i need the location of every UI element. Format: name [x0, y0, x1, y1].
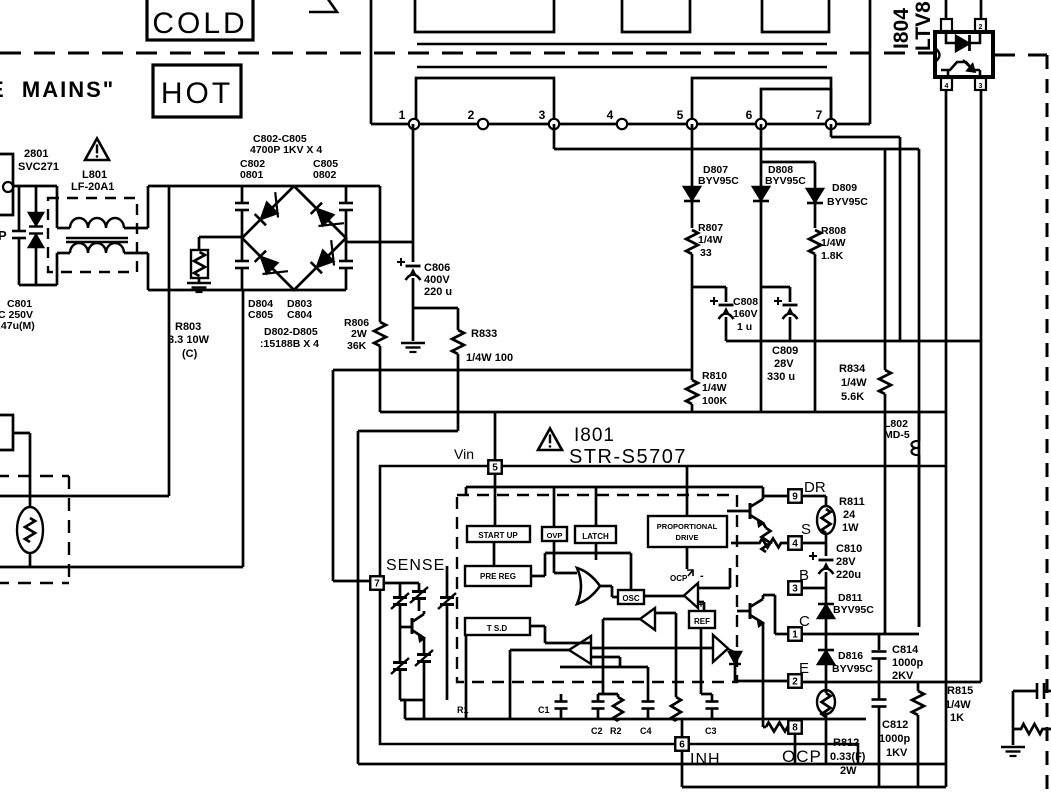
label C812: [879, 719, 910, 759]
wire inh up: [675, 613, 678, 676]
label R803: [168, 321, 210, 360]
label R833: [466, 328, 513, 364]
degauss connector box: [0, 415, 13, 450]
svg-text:D816: D816: [838, 650, 863, 662]
label C806: [424, 262, 452, 298]
ground C806: [401, 343, 425, 352]
svg-text:C804: C804: [287, 309, 312, 321]
bridge diamond: [242, 186, 346, 290]
mains isolation dashed line right edge: [1046, 55, 1049, 796]
svg-text:R815: R815: [947, 685, 973, 697]
bridge bottom edge: [242, 289, 346, 292]
diode D808: [753, 187, 769, 412]
diode D807: [684, 187, 700, 228]
svg-text:C812: C812: [882, 719, 908, 731]
wire PROP DRIVE top: [686, 466, 689, 516]
svg-text:400V: 400V: [424, 274, 450, 286]
label R815: [945, 685, 973, 724]
optocoupler pin bottom-right: [975, 78, 986, 90]
wire AC junction vertical: [56, 186, 59, 285]
svg-text:I804: I804: [890, 8, 913, 49]
svg-text:4: 4: [945, 83, 949, 90]
svg-text:330 u: 330 u: [767, 371, 795, 383]
label C814: [892, 644, 923, 682]
svg-text:LF-20A1: LF-20A1: [71, 181, 114, 193]
bridge top edge: [242, 185, 380, 188]
svg-text:R803: R803: [175, 321, 201, 333]
svg-text:R833: R833: [471, 328, 497, 340]
wire OVP stubs: [554, 487, 577, 573]
resistor internal S: [752, 539, 789, 548]
wire internal x466: [465, 634, 468, 719]
block PROPORTIONAL DRIVE: [648, 516, 727, 547]
svg-text:BYV95C: BYV95C: [765, 175, 806, 187]
warning triangle L801: [85, 138, 109, 160]
svg-text:100K: 100K: [702, 395, 728, 407]
wire comp4 in2: [591, 657, 620, 667]
wire pin5 down: [494, 475, 497, 526]
transformer pin 6: [746, 108, 767, 129]
capacitor C808: [710, 297, 734, 341]
label B: [799, 567, 809, 584]
capacitor C812: [872, 682, 887, 787]
wire comp4 out: [510, 650, 569, 719]
wire tsd to comp4: [530, 626, 591, 643]
svg-text:1.8K: 1.8K: [821, 250, 844, 262]
capacitor C810: [809, 543, 834, 598]
transformer secondary winding box pins 5-7: [692, 78, 831, 124]
svg-text:B: B: [799, 567, 809, 584]
resistor R803 fusible: [191, 250, 208, 282]
svg-text:SENSE: SENSE: [386, 557, 445, 574]
wire filter to bridge top: [148, 186, 242, 228]
svg-text:R810: R810: [702, 370, 727, 382]
wire sense rail from pin7: [333, 370, 371, 581]
IC pin 6 INH: [675, 737, 689, 751]
svg-text:C806: C806: [424, 262, 450, 274]
svg-text:2801: 2801: [24, 148, 48, 160]
transformer pin 4: [607, 108, 628, 129]
transformer pin 5: [677, 108, 698, 129]
label C802-C805 group: [250, 133, 322, 156]
svg-text:D802-D805: D802-D805: [264, 326, 318, 338]
capacitor C4: [640, 699, 655, 736]
resistor R corner: [1013, 724, 1051, 734]
svg-text:R808: R808: [821, 225, 846, 237]
ground R803: [187, 283, 211, 292]
capacitor C809: [774, 297, 798, 341]
svg-text:R1: R1: [457, 705, 469, 715]
svg-text:INH: INH: [690, 751, 721, 768]
label SENSE: [386, 557, 445, 574]
transistor Q1 internal top: [727, 499, 763, 526]
transformer pin 2: [468, 108, 489, 129]
wire D809 jog from pin6 line: [761, 162, 815, 189]
label AC MAINS text: [0, 77, 115, 102]
wire B line: [803, 587, 826, 590]
optocoupler pin top-right: [975, 0, 986, 31]
svg-text:3: 3: [979, 83, 983, 90]
svg-text:COLD: COLD: [152, 7, 247, 40]
svg-text:C1: C1: [538, 705, 550, 715]
label R834: [839, 363, 867, 403]
IC pin 9 DR: [788, 489, 802, 503]
line filter L801 lower winding: [57, 243, 148, 253]
label E: [799, 660, 809, 677]
wire pin6 top: [681, 719, 684, 737]
label P: [0, 228, 7, 243]
AC input terminal box: [0, 154, 13, 215]
svg-text:1: 1: [399, 108, 406, 122]
svg-text:28V: 28V: [774, 358, 794, 370]
label R811: [839, 496, 865, 534]
wire R807 to R810: [691, 287, 694, 370]
wire comp1 inputs: [698, 568, 730, 611]
wire main bus y412: [380, 411, 946, 414]
transformer pin 1: [399, 108, 420, 129]
resistor R833: [452, 308, 464, 412]
sense zener chain 3: [400, 650, 433, 700]
label HOT box: [153, 65, 241, 117]
svg-text:2KV: 2KV: [892, 670, 914, 682]
wire bottom y764: [358, 763, 946, 766]
wire C809 jog: [761, 287, 790, 302]
svg-text:5.6K: 5.6K: [841, 391, 864, 403]
label R807: [698, 222, 723, 259]
mains isolation dashed line: [0, 53, 1047, 55]
capacitor C3: [705, 694, 719, 736]
wire pin7 to x900: [831, 124, 900, 341]
svg-text:BYV95C: BYV95C: [832, 663, 873, 675]
label I801: [574, 425, 615, 446]
resistor internal OCP: [766, 723, 788, 732]
svg-text:4: 4: [792, 539, 798, 550]
svg-text:D811: D811: [838, 592, 863, 604]
capacitor C806: [397, 258, 421, 308]
transformer T801 outer box: [371, 0, 870, 124]
wire corner circuit: [1013, 691, 1037, 745]
svg-text:BYV95C: BYV95C: [698, 175, 739, 187]
transformer primary winding box 3: [762, 0, 829, 32]
block REF: [689, 600, 715, 628]
wire sense bus y370: [333, 369, 693, 372]
svg-text:OVP: OVP: [547, 531, 563, 540]
IC pin 1 C: [788, 627, 802, 641]
svg-text:R2: R2: [610, 726, 622, 736]
label R1: [457, 705, 469, 715]
line filter L801 core: [66, 238, 128, 242]
svg-text:28V: 28V: [836, 556, 856, 568]
label C801: [0, 298, 35, 332]
resistor R812 fusible: [817, 690, 835, 764]
resistor R834: [879, 149, 891, 633]
comparator U1b: [640, 608, 655, 630]
comparator U1a: [684, 570, 704, 608]
sense zener chain 2: [410, 583, 428, 611]
diode D811: [818, 597, 834, 633]
svg-text::15188B X 4: :15188B X 4: [260, 338, 319, 350]
wire Q2 emitter: [763, 623, 766, 727]
svg-text:MD-5: MD-5: [884, 429, 910, 441]
wire internal ground y719: [405, 718, 866, 721]
svg-text:T S.D: T S.D: [487, 624, 508, 633]
sense zener chain 4: [438, 566, 456, 700]
label R812: [830, 737, 866, 777]
block OSC: [618, 590, 644, 604]
thyristor: [728, 649, 741, 681]
label D803 C804: [287, 298, 312, 321]
inductor L802: [912, 412, 920, 627]
wire bridge negative to R803: [199, 237, 243, 250]
svg-text:5: 5: [492, 463, 498, 474]
wire pin2 internal: [735, 680, 788, 683]
IC pin 2 E: [788, 674, 802, 688]
svg-text:3: 3: [539, 108, 546, 122]
resistor R810: [686, 370, 698, 412]
resistor R2: [610, 694, 623, 736]
wire AC top line: [13, 185, 57, 188]
svg-text:9: 9: [792, 492, 798, 503]
bridge box right edge with C805 C804: [339, 186, 353, 290]
ground corner: [1001, 747, 1025, 756]
svg-text:2W: 2W: [840, 765, 857, 777]
svg-text:OCP: OCP: [670, 574, 688, 583]
wire Vin drop: [494, 412, 497, 460]
wire prop drive to ocp: [686, 547, 689, 569]
label STR-S5707: [569, 446, 687, 468]
svg-text:DRIVE: DRIVE: [676, 533, 699, 542]
posistor R802: [13, 433, 43, 567]
wire pin1 to C806: [412, 124, 415, 262]
label D802-D805 type: [260, 326, 319, 350]
capacitor C2: [591, 694, 605, 736]
wire sense bottom: [400, 700, 424, 719]
label D811: [833, 592, 874, 616]
svg-text:4: 4: [607, 108, 614, 122]
svg-text:PROPORTIONAL: PROPORTIONAL: [657, 522, 718, 531]
label INH: [690, 751, 721, 768]
transformer core lines: [417, 44, 827, 67]
wire internal vcc: [466, 487, 763, 495]
svg-text:C: C: [799, 613, 810, 630]
IC pin 5 Vin: [488, 460, 502, 474]
svg-text:I801: I801: [574, 425, 615, 446]
IC pin 7 SENSE: [370, 576, 384, 590]
svg-text:3.3 10W: 3.3 10W: [168, 334, 210, 346]
wire pin8 down: [794, 735, 797, 764]
wire optocoupler left pin down: [945, 90, 948, 787]
svg-text:R807: R807: [698, 222, 723, 234]
svg-text:220u: 220u: [836, 569, 861, 581]
svg-text:0801: 0801: [240, 169, 264, 181]
svg-text:160V: 160V: [733, 308, 758, 320]
IC I801 outer box: [380, 466, 945, 764]
svg-text:1/4W 100: 1/4W 100: [466, 352, 513, 364]
svg-text:1KV: 1KV: [886, 747, 908, 759]
svg-text:PRE REG: PRE REG: [480, 572, 516, 581]
bridge diode D804 bottom-left: [253, 250, 288, 285]
svg-text:4700P 1KV X 4: 4700P 1KV X 4: [250, 144, 322, 156]
wire or-gate out: [599, 586, 618, 597]
svg-text:220 u: 220 u: [424, 286, 452, 298]
svg-text:0802: 0802: [313, 169, 337, 181]
svg-text:SVC271: SVC271: [18, 161, 59, 173]
wire E line: [803, 681, 981, 684]
wire Q2 collector: [763, 595, 788, 634]
label C805 D802: [313, 158, 338, 181]
resistor R806 2W 36K: [374, 186, 386, 412]
svg-text:BYV95C: BYV95C: [827, 196, 868, 208]
sense zener chain 1: [391, 583, 409, 700]
warning triangle I801: [538, 428, 562, 450]
resistor R inh: [671, 676, 681, 721]
svg-text:E: E: [799, 660, 809, 677]
wire prereg to osc: [531, 553, 631, 590]
svg-text:1: 1: [792, 630, 798, 641]
wire bridge positive output: [346, 238, 413, 242]
svg-text:6: 6: [679, 740, 685, 751]
svg-text:C814: C814: [892, 644, 919, 656]
svg-text:D809: D809: [832, 182, 857, 194]
wire R833 jog to x358: [358, 412, 458, 431]
wire C line: [803, 633, 919, 636]
line filter L801 upper winding: [57, 218, 148, 228]
IC pin 3 B: [788, 581, 802, 595]
bridge diode D801 top-left: [254, 192, 289, 227]
block START UP: [467, 526, 530, 542]
transistor Q2 internal bottom: [737, 599, 763, 626]
svg-text:DR: DR: [804, 479, 826, 496]
bridge diode D803 bottom-right: [310, 240, 345, 275]
svg-text:R834: R834: [839, 363, 866, 375]
svg-text:36K: 36K: [347, 340, 367, 352]
label C810: [836, 543, 862, 581]
block OVP: [542, 527, 567, 541]
svg-text:C2: C2: [591, 726, 603, 736]
diode D809: [807, 189, 823, 228]
svg-text:C808: C808: [733, 296, 758, 308]
label D816: [832, 650, 873, 675]
wire pin7 right: [385, 582, 419, 585]
transformer primary winding box 1: [415, 0, 554, 32]
wire S line internal: [731, 542, 752, 545]
svg-text:R811: R811: [839, 496, 865, 508]
label COLD box: [147, 0, 253, 40]
optocoupler pin top-left: [941, 0, 952, 31]
svg-text:(C): (C): [182, 348, 198, 360]
svg-text:+: +: [698, 600, 704, 611]
capacitor C814: [872, 634, 887, 682]
svg-text:1/4W: 1/4W: [821, 237, 846, 249]
wire filter to bridge bottom: [148, 253, 242, 290]
capacitor C corner: [1037, 683, 1051, 699]
wire DR to R811: [803, 495, 826, 498]
svg-text:2W: 2W: [351, 328, 367, 340]
block LATCH: [575, 526, 616, 543]
label C802 D801: [240, 158, 265, 181]
varistor Z801 SVC271: [29, 186, 43, 285]
comparator U1c big: [713, 635, 728, 662]
transformer pin 3: [539, 108, 560, 129]
svg-text:Vin: Vin: [454, 446, 474, 462]
label OCP: [782, 747, 822, 766]
wire c2 r2 link: [598, 693, 618, 696]
svg-text:REF: REF: [694, 617, 710, 626]
wire optocoupler right pin down: [980, 90, 983, 682]
resistor R808: [809, 230, 821, 412]
svg-text:BYV95C: BYV95C: [833, 604, 874, 616]
IC inner dashed box: [457, 495, 737, 682]
wire AC bottom line: [19, 284, 57, 287]
label S: [801, 521, 811, 538]
transformer pin 7: [816, 108, 837, 129]
svg-text:LATCH: LATCH: [582, 532, 609, 541]
comparator U1d: [569, 636, 591, 664]
svg-text:2: 2: [792, 677, 798, 688]
svg-text:1K: 1K: [950, 712, 964, 724]
svg-text:-: -: [700, 570, 704, 582]
warning triangle top: [309, 0, 337, 12]
svg-text:24: 24: [843, 509, 856, 521]
svg-text:C3: C3: [705, 726, 717, 736]
svg-text:R812: R812: [833, 737, 859, 749]
wire degauss tap from AC line: [0, 186, 169, 496]
wire comp1 out: [643, 595, 684, 598]
svg-text:E MAINS": E MAINS": [0, 77, 115, 102]
optocoupler I804 body: [935, 32, 993, 77]
resistor R815: [912, 682, 924, 787]
label R810: [702, 370, 728, 407]
transformer secondary winding box pins 1-3: [416, 78, 554, 124]
svg-text:2: 2: [979, 24, 983, 31]
optocoupler pin bottom-left: [941, 78, 952, 90]
wire pin5 drop: [691, 124, 694, 187]
label D807: [698, 164, 739, 187]
svg-text:3: 3: [792, 584, 798, 595]
svg-text:7: 7: [374, 579, 380, 590]
svg-text:START UP: START UP: [478, 531, 518, 540]
label L802: [884, 418, 910, 441]
label D808: [765, 164, 806, 187]
label Vin: [454, 446, 474, 462]
line filter L801 shield dashed box: [48, 198, 137, 272]
resistor R811 fusible: [817, 496, 835, 543]
svg-text:1 u: 1 u: [737, 321, 752, 333]
label C808: [733, 296, 758, 333]
label L801 LF-20A1: [71, 169, 114, 193]
optocoupler LED: [946, 31, 980, 51]
svg-text:LTV8: LTV8: [912, 1, 935, 51]
svg-text:33: 33: [700, 247, 712, 259]
svg-text:C810: C810: [836, 543, 862, 555]
wire long y667: [560, 667, 648, 699]
wire pin6 drop: [760, 124, 763, 187]
svg-text:HOT: HOT: [161, 77, 233, 110]
wire bridge negative to degauss: [0, 290, 243, 567]
capacitor C801: [12, 186, 26, 285]
svg-text:1/4W: 1/4W: [702, 382, 727, 394]
diode D816: [818, 634, 834, 693]
svg-text:6: 6: [746, 108, 753, 122]
degauss dashed box: [0, 476, 69, 583]
capacitor C1: [538, 694, 568, 719]
optocoupler phototransistor: [935, 48, 980, 78]
bridge box left edge with C802 C806: [235, 186, 249, 290]
svg-text:P: P: [0, 228, 7, 243]
svg-text:0.33(F): 0.33(F): [830, 751, 866, 763]
resistor R807: [686, 230, 698, 287]
wire LATCH stubs: [595, 487, 598, 560]
